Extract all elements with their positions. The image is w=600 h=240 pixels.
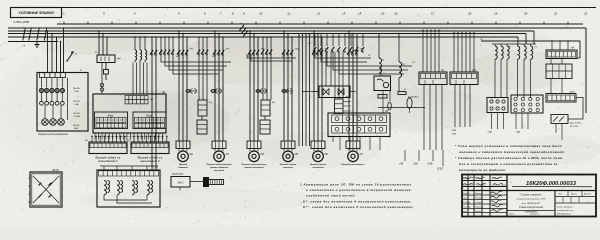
svg-text:−24В: −24В bbox=[451, 133, 457, 136]
svg-text:Загрузка узлов напряжения: Загрузка узлов напряжения bbox=[38, 134, 68, 136]
svg-text:А.И.Ефремова: А.И.Ефремова bbox=[556, 213, 572, 216]
svg-text:−15В: −15В bbox=[412, 164, 418, 166]
svg-text:Пров.: Пров. bbox=[463, 198, 468, 200]
svg-text:передней: передней bbox=[214, 169, 225, 172]
svg-text:3~50Гц,380В: 3~50Гц,380В bbox=[13, 20, 29, 24]
svg-text:* Сводные данные расположенных: * Сводные данные расположенных № и МОЬ п… bbox=[455, 156, 564, 160]
svg-text:Н.контр.: Н.контр. bbox=[463, 206, 471, 208]
svg-text:УСЛОВНЫЕ ФЛАЖКИ: УСЛОВНЫЕ ФЛАЖКИ bbox=[18, 11, 54, 15]
svg-text:Н*- схема без включения 6-пози: Н*- схема без включения 6-позиционной ре… bbox=[303, 200, 412, 204]
svg-text:ЛЬ-ЛЬ: ЛЬ-ЛЬ bbox=[72, 125, 80, 127]
svg-text:размещение на фабрике.: размещение на фабрике. bbox=[458, 168, 507, 172]
svg-text:Привод смазки: Привод смазки bbox=[280, 163, 297, 166]
svg-text:Петров: Петров bbox=[475, 198, 482, 200]
svg-text:АТ-12ФС: АТ-12ФС bbox=[569, 125, 579, 128]
svg-text:−24В: −24В bbox=[515, 131, 521, 134]
svg-text:* Узлы внутри установки в элек: * Узлы внутри установки в электрошкафах … bbox=[455, 144, 562, 148]
svg-text:Утв.: Утв. bbox=[463, 211, 468, 213]
svg-text:главный: главный bbox=[178, 166, 188, 169]
svg-text:ЛР1: ЛР1 bbox=[189, 49, 194, 51]
svg-text:КМ: КМ bbox=[176, 56, 179, 58]
svg-text:Разраб.: Разраб. bbox=[463, 193, 470, 195]
svg-text:налажено и сверяется техническ: налажено и сверяется технической перепод… bbox=[459, 150, 565, 154]
svg-text:1,5А: 1,5А bbox=[74, 90, 79, 93]
svg-text:Привод гидростанции: Привод гидростанции bbox=[241, 163, 267, 166]
svg-text:А8: А8 bbox=[384, 110, 389, 113]
svg-text:Лист: Лист bbox=[508, 214, 514, 216]
svg-text:АП: АП bbox=[149, 98, 153, 101]
svg-text:Листов 2: Листов 2 bbox=[529, 214, 540, 216]
svg-text:шпинделем 1: шпинделем 1 bbox=[98, 160, 118, 163]
svg-text:Иванов: Иванов bbox=[475, 193, 481, 195]
svg-text:КМ: КМ bbox=[212, 56, 215, 58]
svg-text:Привод подач со: Привод подач со bbox=[137, 156, 162, 159]
svg-text:Станок токарный: Станок токарный bbox=[521, 194, 543, 197]
svg-text:КМ: КМ bbox=[282, 56, 285, 58]
svg-text:пролетарий» им.: пролетарий» им. bbox=[557, 209, 574, 212]
svg-text:Привод смазки: Привод смазки bbox=[310, 163, 327, 166]
svg-text:1 Коммутация реле ЗП, ПМ на сх: 1 Коммутация реле ЗП, ПМ на схеме 29 рас… bbox=[300, 183, 412, 187]
svg-text:+24В: +24В bbox=[487, 131, 493, 134]
svg-text:снабжённой этой жилой.: снабжённой этой жилой. bbox=[306, 194, 356, 198]
svg-text:+24В: +24В bbox=[451, 129, 457, 132]
svg-text:0-10В АЦВ: 0-10В АЦВ bbox=[408, 96, 419, 99]
svg-text:СЬ-ПЬ: СЬ-ПЬ bbox=[73, 113, 80, 115]
svg-text:Завод «Красный: Завод «Красный bbox=[557, 206, 573, 209]
svg-text:25А: 25А bbox=[73, 127, 78, 130]
svg-text:мод. 16К20Ф3С32.: мод. 16К20Ф3С32. bbox=[522, 202, 541, 205]
svg-text:А2Ж: А2Ж bbox=[569, 90, 576, 93]
svg-text:шпинделя: шпинделя bbox=[312, 166, 324, 169]
svg-text:Т.контр.: Т.контр. bbox=[463, 202, 471, 204]
svg-text:6-10А: 6-10А bbox=[74, 115, 80, 118]
svg-text:ЛЭ-ПЬ: ЛЭ-ПЬ bbox=[72, 101, 80, 103]
svg-text:Схема электрическая: Схема электрическая bbox=[519, 207, 544, 209]
svg-text:+5В: +5В bbox=[399, 164, 404, 166]
svg-text:патронно-центровой с ЧПУ: патронно-центровой с ЧПУ bbox=[516, 198, 546, 201]
svg-text:Привод: Привод bbox=[179, 163, 188, 166]
svg-text:АК: АК bbox=[570, 47, 575, 50]
svg-text:АПЗУ ЧПУ: АПЗУ ЧПУ bbox=[171, 173, 184, 176]
svg-text:Масшт.: Масшт. bbox=[584, 194, 592, 196]
svg-text:АКС: АКС bbox=[178, 180, 185, 184]
svg-text:15 ВС: 15 ВС bbox=[437, 169, 444, 171]
svg-text:А6: А6 bbox=[161, 91, 166, 94]
svg-text:Козлов: Козлов bbox=[475, 211, 481, 213]
svg-text:АД-12-60В—: АД-12-60В— bbox=[569, 122, 583, 125]
svg-text:Масса: Масса bbox=[571, 194, 578, 196]
svg-text:мки в эксплуатацию и примечани: мки в эксплуатацию и примечание руководс… bbox=[459, 162, 558, 166]
svg-text:Привод револьверки: Привод револьверки bbox=[342, 163, 366, 166]
svg-text:станины: станины bbox=[283, 167, 293, 169]
svg-text:Сидоров: Сидоров bbox=[475, 201, 483, 204]
svg-text:смазки станины: смазки станины bbox=[210, 167, 229, 169]
svg-text:2,5А: 2,5А bbox=[73, 103, 79, 106]
svg-text:+24В: +24В bbox=[427, 163, 433, 166]
svg-text:шпинделем 2: шпинделем 2 bbox=[140, 160, 160, 163]
svg-text:Фаза: Фаза bbox=[146, 114, 152, 117]
svg-text:Привод гидростанции: Привод гидростанции bbox=[206, 163, 232, 166]
svg-text:→ N: → N bbox=[20, 44, 25, 48]
svg-text:Н**- схема для включения 8-поз: Н**- схема для включения 8-позиционной р… bbox=[303, 205, 414, 209]
svg-text:Лит.: Лит. bbox=[557, 194, 563, 196]
svg-text:Привод подач со: Привод подач со bbox=[95, 156, 120, 159]
svg-text:и контактная и расположена в т: и контактная и расположена в тормозной м… bbox=[306, 188, 411, 192]
svg-text:АВ-45: АВ-45 bbox=[51, 169, 59, 172]
svg-text:смазки шпинделя: смазки шпинделя bbox=[244, 166, 264, 169]
svg-text:ЛЬ-ПЬ: ЛЬ-ПЬ bbox=[72, 88, 80, 90]
svg-text:Фаза: Фаза bbox=[108, 114, 114, 117]
svg-text:КМ: КМ bbox=[247, 56, 250, 58]
svg-text:КМ: КМ bbox=[117, 58, 120, 61]
svg-text:Смирнов: Смирнов bbox=[475, 206, 483, 208]
svg-text:Дата: Дата bbox=[500, 184, 506, 186]
